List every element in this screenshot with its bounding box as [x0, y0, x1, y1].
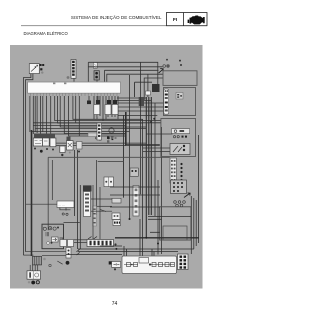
right side frame 1 [163, 71, 197, 86]
dark slab connector [139, 97, 144, 106]
wire fuse strip down to ECU bar [73, 79, 75, 83]
right connector strips pair [170, 158, 177, 183]
wire from switch to left bus [23, 74, 31, 256]
right side frame 3 [161, 119, 196, 157]
light strip sensor lead [93, 206, 97, 226]
tall white strip (speed sensor) [83, 185, 92, 216]
small relay connector (top center) [93, 62, 97, 68]
inline connector symbol (diagonal) [159, 69, 164, 73]
junction dot [157, 243, 159, 245]
node dot above [166, 59, 168, 61]
injector bodies [94, 105, 118, 118]
ECU pin wires dropping to mid band [30, 96, 161, 138]
svg-text:SISTEMA DE INJEÇÃO DE COMBUSTÍ: SISTEMA DE INJEÇÃO DE COMBUSTÍVEL [71, 14, 162, 20]
svg-text:DIAGRAMA ELÉTRICO: DIAGRAMA ELÉTRICO [24, 31, 69, 36]
bottom multi-pin connector strip [87, 237, 114, 247]
svg-text:FI: FI [173, 17, 177, 22]
dark connector band above component row [34, 134, 55, 139]
right lower inner frame [163, 226, 187, 240]
starter relay body [94, 71, 99, 80]
component row box 5 (diode) [67, 141, 74, 150]
wires to sensor boxes [91, 185, 112, 239]
right side frame 2 [164, 88, 196, 116]
svg-text:74: 74 [112, 301, 118, 307]
wire drop from bus4 [147, 74, 149, 97]
harness lines right of ECU [117, 98, 164, 115]
sensor pair boxes [104, 177, 114, 187]
frame box center (CDI unit outline) [48, 157, 170, 230]
right small labeled box (sensor) [172, 129, 190, 134]
inline connector arrow right [184, 193, 190, 198]
connector dots right of switch [40, 64, 45, 74]
junction dot [129, 218, 131, 220]
harness connector block (dark) [152, 84, 160, 92]
small light box above wires [88, 133, 97, 137]
right switch unit box [170, 144, 190, 155]
lamp terminals [28, 281, 30, 283]
component row box 3 [50, 138, 56, 147]
small box inside right frame [176, 93, 183, 100]
bottom-left lamp unit box [27, 271, 41, 279]
left long vertical harness [32, 130, 81, 256]
cap above diode box [67, 137, 71, 141]
indicator circle center [109, 128, 114, 133]
fuel pump assembly frame [42, 224, 64, 249]
fuse holder strip (top, tall) [71, 60, 76, 79]
component row box 2 [43, 138, 50, 146]
junction dot [115, 248, 117, 250]
marker dots [179, 60, 181, 62]
label box with text [57, 201, 74, 208]
component row box 4 [60, 146, 65, 153]
battery and fuse panel [122, 256, 177, 274]
tiny terminal marks [96, 136, 117, 140]
small terminal dots row [174, 201, 186, 207]
small battery terminal box [112, 262, 121, 271]
top bus wire 1 [88, 62, 158, 84]
wire pair to center [48, 143, 146, 146]
small sensor box mid-right [130, 168, 138, 176]
header rule [21, 24, 207, 27]
wires to handlebar switch [143, 134, 173, 152]
small marks under circle [107, 137, 113, 143]
wire bus drop left [87, 62, 89, 82]
thick harness bundle center [124, 62, 162, 256]
injector connector caps [87, 100, 117, 104]
diagram gray panel [10, 45, 203, 289]
wire bus3 drop [104, 70, 106, 82]
small white box on harness [146, 91, 151, 95]
right connector face w/ pin grid [171, 180, 187, 194]
mid-bottom junction boxes [43, 240, 73, 265]
dot right of strip [114, 243, 116, 245]
ECU connector bar [28, 82, 121, 96]
header FI box [167, 13, 208, 26]
mid band horizontal wires [31, 123, 161, 134]
wire relay down to ECU bar [96, 80, 98, 83]
component row box 1 (relay) [33, 138, 42, 146]
top bus wire 2 [88, 66, 162, 68]
dark terminal under strip [109, 261, 112, 264]
component row box 6 [77, 142, 83, 150]
junction dot [145, 237, 147, 239]
bus terminal ring [163, 65, 166, 68]
top bus wire 3 [105, 69, 159, 71]
wire stub over harness [135, 82, 153, 97]
diagonal wire [100, 210, 106, 212]
junction dots harness [153, 118, 155, 120]
bottom-left connector with pins [30, 256, 41, 271]
svg-text:··· ···: ··· ··· [58, 203, 65, 207]
mid-left small boxes column [112, 198, 121, 225]
pins under component row [34, 148, 80, 157]
right vertical connector strip [164, 89, 169, 114]
main ignition switch box (top left) [29, 64, 39, 74]
terminal dots under label box [62, 213, 64, 215]
bottom horizontal bus wires [66, 187, 199, 255]
terminal marks under sensor box [173, 136, 187, 138]
center small vertical connector strip [97, 123, 102, 140]
small ring terminal [49, 264, 51, 266]
header engine icon [188, 15, 205, 24]
top bus wire 5 [144, 78, 163, 100]
top bus wire 4 [107, 74, 163, 82]
right lower frame [160, 207, 191, 240]
wire from switch to left bus 2 [26, 74, 33, 252]
center tall connector strip (mid right) [133, 186, 139, 217]
dot left of fuse strip [67, 76, 70, 79]
right pin dots column [180, 163, 182, 181]
right bus vertical wires [191, 135, 198, 254]
bottom-right connector block [178, 254, 189, 270]
wires bottom-left area [23, 204, 87, 255]
bus terminal dot [166, 64, 169, 67]
